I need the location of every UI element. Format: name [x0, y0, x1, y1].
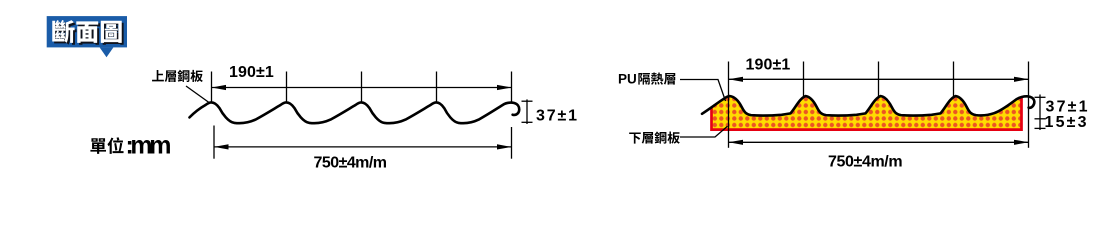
svg-text::mm: :mm [126, 132, 172, 160]
svg-text:15±3: 15±3 [1045, 114, 1087, 131]
svg-text:190±1: 190±1 [746, 56, 791, 73]
svg-text:750±4m/m: 750±4m/m [828, 153, 903, 170]
svg-text:750±4m/m: 750±4m/m [314, 154, 388, 171]
svg-text:37±1: 37±1 [536, 108, 577, 125]
svg-text:190±1: 190±1 [229, 64, 274, 81]
svg-text:PU: PU [618, 72, 637, 87]
